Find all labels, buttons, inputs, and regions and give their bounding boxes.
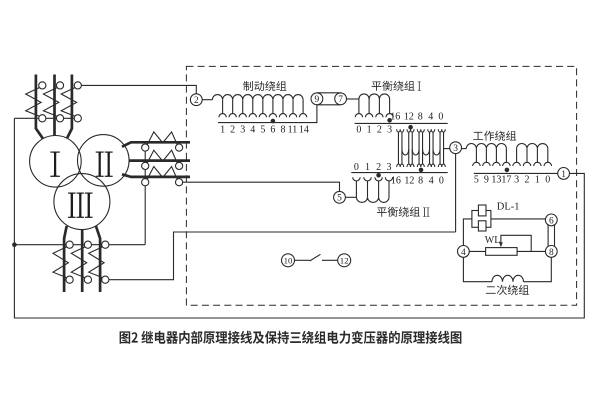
secondary winding coil <box>492 275 524 281</box>
CT secondary zigzag A bottom <box>53 246 68 278</box>
svg-text:0: 0 <box>356 125 361 136</box>
wire WL to terminal 8 <box>517 250 545 252</box>
relay DL-1 body <box>472 211 491 228</box>
CT terminal circles phase B right <box>142 162 149 169</box>
balance winding I tap legs <box>359 99 390 114</box>
phase line B right <box>129 159 190 162</box>
svg-text:1: 1 <box>561 170 566 180</box>
svg-text:3: 3 <box>240 124 245 135</box>
CT terminal circles phase C top <box>74 82 81 89</box>
svg-text:3: 3 <box>514 174 519 185</box>
svg-text:9: 9 <box>484 174 489 185</box>
wire contact to terminal 12 <box>322 259 338 261</box>
wire terminal 4 down to secondary winding <box>463 257 492 281</box>
terminal 3 <box>450 142 462 154</box>
phase line C bottom <box>96 226 100 292</box>
balance winding I tap dot at 3 <box>387 118 392 123</box>
wire right CT to terminal 5 <box>183 182 340 191</box>
rheostat WL wiper arm <box>501 235 531 251</box>
wire bottom CT top circles <box>14 244 145 246</box>
wire secondary winding to terminal 8 <box>524 257 552 281</box>
wire differential winding to terminal 3 <box>444 148 450 150</box>
terminal 7 <box>335 93 347 105</box>
balance winding II tap feet <box>353 177 393 181</box>
svg-text:2: 2 <box>377 125 382 136</box>
working winding tap dot at 17 <box>505 168 510 173</box>
svg-text:2: 2 <box>194 96 199 106</box>
balance winding I tap feet <box>355 114 393 118</box>
junction dot left rail <box>12 242 17 247</box>
svg-text:12: 12 <box>340 255 349 265</box>
phase line B top <box>53 75 56 136</box>
CT secondary zigzag C right <box>147 167 178 181</box>
terminal 4 <box>458 246 470 258</box>
terminal 5 <box>334 191 346 203</box>
differential winding top tap loops <box>397 129 446 132</box>
CT secondary zigzag C bottom <box>89 246 104 278</box>
wire terminal 10 to contact <box>295 259 310 261</box>
svg-text:6: 6 <box>549 216 554 226</box>
svg-text:8: 8 <box>418 112 423 123</box>
brake winding tap feet <box>219 114 307 118</box>
label balance winding II <box>377 207 420 217</box>
CT terminal circles phase C bottom <box>102 241 109 248</box>
differential winding bottom tap loops <box>397 164 446 167</box>
wire left rail <box>14 118 584 318</box>
rheostat WL wiper arrowhead <box>499 242 503 247</box>
wire terminal 3 down <box>455 154 457 232</box>
svg-text:10: 10 <box>284 255 293 265</box>
wire DL-1 right to terminal 6 <box>491 218 546 220</box>
svg-text:9: 9 <box>315 95 320 105</box>
wire terminal 3 to working winding <box>461 148 466 150</box>
CT terminal circles phase A right <box>142 144 149 151</box>
svg-text:1: 1 <box>367 125 372 136</box>
balance winding II coil <box>356 197 389 202</box>
svg-text:16: 16 <box>390 112 400 123</box>
terminal 12 <box>338 254 351 267</box>
link terminal 9-7 <box>317 93 341 105</box>
label balance winding I <box>372 81 415 91</box>
phase line A bottom <box>64 226 67 292</box>
svg-text:17: 17 <box>501 174 511 185</box>
differential winding legs <box>398 132 443 164</box>
phase line C right <box>122 174 190 177</box>
brake winding tap legs <box>223 100 303 114</box>
svg-text:12: 12 <box>404 112 414 123</box>
svg-text:5: 5 <box>474 174 479 185</box>
phase line A top <box>36 75 43 139</box>
svg-text:4: 4 <box>428 112 433 123</box>
CT secondary zigzag A right <box>147 132 178 146</box>
svg-text:2: 2 <box>230 124 235 135</box>
svg-text:14: 14 <box>299 124 309 135</box>
CT terminal circles phase A top <box>39 82 46 89</box>
label balance winding II numeral <box>423 208 429 217</box>
svg-text:WL: WL <box>485 235 501 246</box>
terminal 10 <box>282 254 295 267</box>
svg-text:12: 12 <box>404 175 414 186</box>
label braking winding <box>243 81 286 91</box>
svg-text:3: 3 <box>387 162 392 173</box>
phase line A right <box>122 142 190 147</box>
differential top tap dot at 12 <box>408 125 413 130</box>
caption <box>120 331 462 344</box>
wire CT-C-top to terminal 2 <box>81 85 196 93</box>
CT secondary zigzag B top <box>43 87 58 117</box>
svg-text:5: 5 <box>260 124 265 135</box>
svg-text:8: 8 <box>549 248 554 258</box>
terminal 2 <box>190 94 202 106</box>
svg-text:0: 0 <box>354 162 359 173</box>
svg-text:4: 4 <box>250 124 255 135</box>
CT terminal circles phase A bottom <box>66 241 73 248</box>
svg-text:4: 4 <box>429 175 434 186</box>
label working winding <box>473 131 516 141</box>
CT secondary zigzag B right <box>147 150 178 164</box>
label balance winding I numeral <box>418 82 422 91</box>
svg-text:3: 3 <box>387 125 392 136</box>
lower tap bus <box>351 172 447 174</box>
wire terminal 2 to braking winding <box>202 99 212 101</box>
svg-text:8: 8 <box>418 175 423 186</box>
working winding section 2 legs <box>517 149 548 163</box>
svg-text:11: 11 <box>288 124 298 135</box>
svg-text:DL-1: DL-1 <box>497 202 520 213</box>
wire terminal 5 to balance winding II <box>345 196 356 198</box>
balance winding II tap dot at 2 <box>376 173 381 178</box>
label II <box>96 152 113 177</box>
working winding section 1 feet <box>473 162 510 166</box>
working winding tap bus to terminal 1 <box>474 172 558 174</box>
wire DL-1 left to terminal 4 <box>463 219 472 246</box>
svg-text:0: 0 <box>439 175 444 186</box>
rheostat WL body <box>486 248 517 256</box>
svg-text:8: 8 <box>280 124 285 135</box>
svg-text:2: 2 <box>525 174 530 185</box>
wire terminal 7 to balance winding I <box>347 98 359 100</box>
balance winding I coil <box>359 94 390 99</box>
terminal 8 <box>545 246 557 258</box>
svg-text:6: 6 <box>270 124 275 135</box>
label I <box>50 152 60 177</box>
working winding coil section 2 <box>517 143 548 148</box>
transformer winding circle I <box>30 136 82 188</box>
transformer winding circle III <box>54 174 110 230</box>
balance winding II tap legs <box>356 181 389 198</box>
svg-text:13: 13 <box>491 174 501 185</box>
svg-text:4: 4 <box>461 248 466 258</box>
brake winding coil <box>212 95 303 100</box>
svg-text:7: 7 <box>338 95 343 105</box>
terminal 9 <box>311 93 323 105</box>
svg-text:1: 1 <box>365 162 370 173</box>
CT terminal circles phase C right <box>142 179 149 186</box>
svg-text:0: 0 <box>438 112 443 123</box>
wire terminal 4 to WL <box>469 250 485 252</box>
CT secondary zigzag B bottom <box>71 246 86 278</box>
CT terminal circles phase B top <box>56 82 63 89</box>
CT secondary zigzag C top <box>61 87 76 117</box>
svg-text:2: 2 <box>376 162 381 173</box>
label III <box>68 193 93 218</box>
phase line C top <box>67 75 72 139</box>
CT terminal circles phase B bottom <box>84 241 91 248</box>
relay DL-1 top lug <box>478 205 486 216</box>
svg-text:16: 16 <box>391 175 401 186</box>
transformer winding circle II <box>78 135 130 187</box>
svg-text:0: 0 <box>545 174 550 185</box>
relay DL-1 bottom lug <box>478 221 486 231</box>
contact blade (open switch) <box>310 254 321 261</box>
working winding section 1 legs <box>476 149 506 163</box>
svg-text:3: 3 <box>453 144 458 154</box>
link terminal 6-8 <box>548 225 554 248</box>
working winding section 2 feet <box>513 162 552 166</box>
upper tap bus <box>355 122 448 124</box>
differential bottom tap dot at 8 <box>419 168 424 173</box>
terminal 1 <box>558 168 570 180</box>
CT secondary zigzag A top <box>26 87 41 117</box>
wire top CT bottom circles to left rail <box>14 117 77 119</box>
working winding coil section 1 <box>466 144 506 149</box>
svg-text:1: 1 <box>220 124 225 135</box>
wire bottom CT to node under terminal 3 <box>109 232 456 280</box>
brake winding tap dot at 6 <box>271 119 276 124</box>
wire right CT left circles chain <box>144 151 146 245</box>
label secondary winding <box>486 285 529 295</box>
differential winding body arcs <box>402 149 440 155</box>
svg-text:5: 5 <box>337 194 342 204</box>
relay enclosure (dashed box) <box>186 66 576 305</box>
svg-text:1: 1 <box>535 174 540 185</box>
phase line B bottom <box>81 230 84 292</box>
terminal 6 <box>545 214 557 226</box>
brake winding tap bus to terminal 9 <box>218 105 317 123</box>
